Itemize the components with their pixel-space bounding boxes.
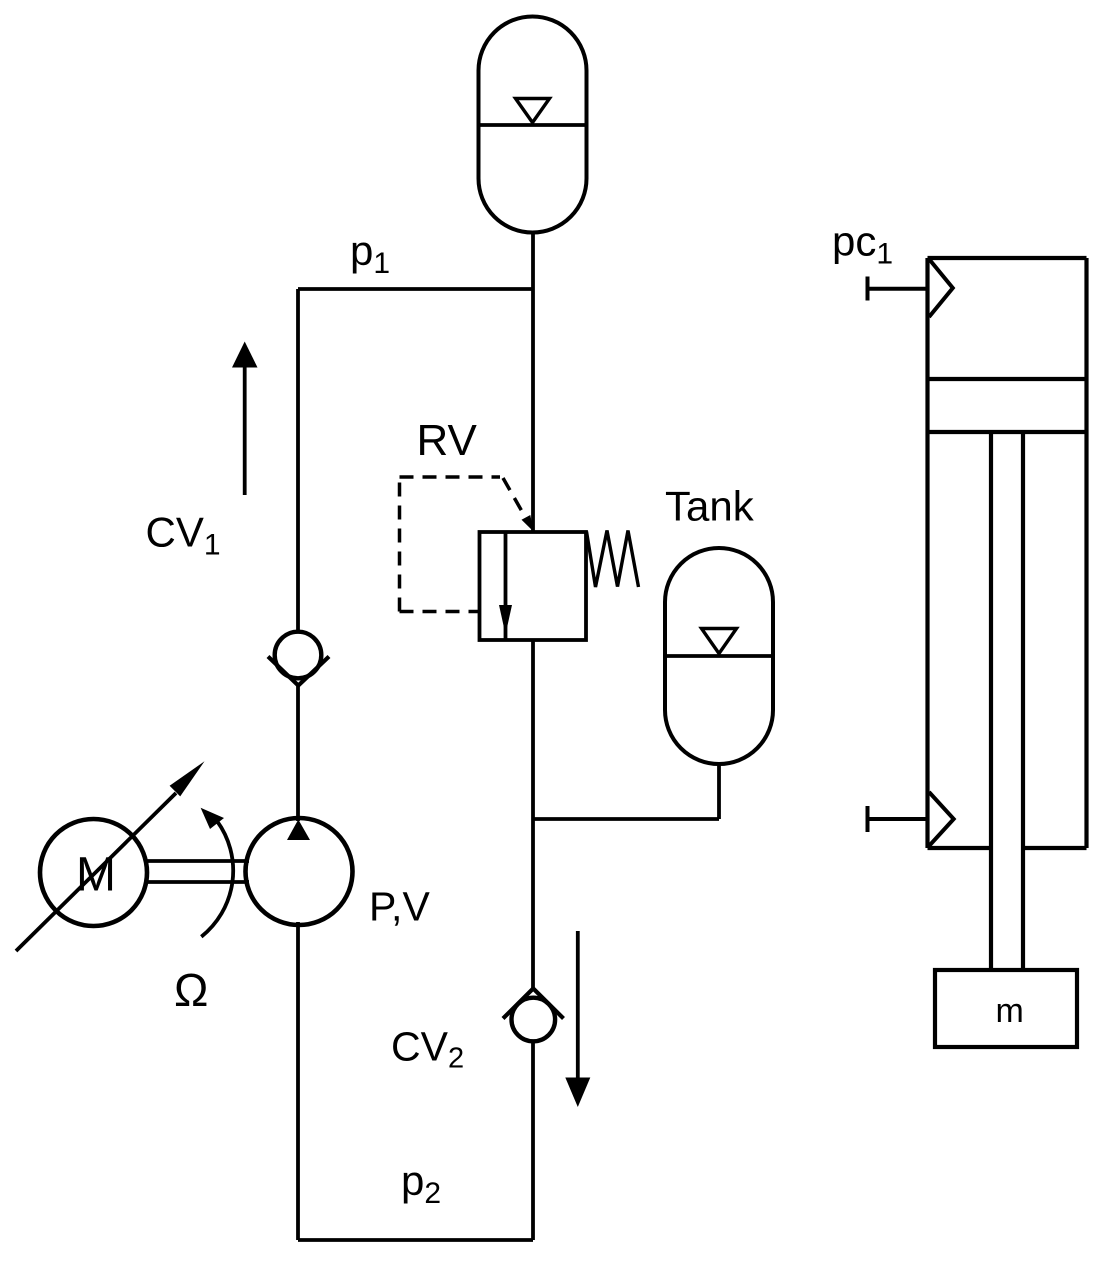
- wire accumulator stem to RV: [531, 232, 535, 532]
- motor M circle: [40, 819, 147, 926]
- pump P flow triangle: [287, 820, 310, 841]
- check valve CV2 seat: [503, 989, 564, 1019]
- cylinder top port line: [868, 287, 928, 291]
- accumulator ACC1 gas/fluid separator line: [479, 123, 587, 127]
- svg-text:CV1: CV1: [146, 509, 221, 562]
- cylinder top edge: [928, 256, 1087, 260]
- flow arrow up: [232, 342, 258, 496]
- wire tank stem: [717, 764, 721, 819]
- relief valve RV internal arrowhead: [499, 605, 512, 635]
- cylinder left wall: [925, 258, 929, 848]
- shaft upper line: [146, 859, 249, 863]
- pilot arrowhead: [522, 515, 534, 532]
- pilot dashed line top: [400, 475, 501, 479]
- wire tank junction horizontal: [533, 817, 719, 821]
- piston lower face: [928, 430, 1087, 434]
- svg-text:pc1: pc1: [832, 218, 893, 271]
- piston upper face: [928, 377, 1087, 381]
- pilot dashed line vertical: [398, 477, 402, 612]
- cylinder bottom port chevron: [929, 792, 954, 846]
- wire center below RV: [531, 640, 535, 988]
- wire p1 horizontal: [298, 287, 533, 291]
- piston rod right: [1021, 432, 1025, 970]
- accumulator Tank separator line: [665, 654, 773, 658]
- check valve CV1 circle: [275, 632, 322, 679]
- mass block m: [935, 970, 1077, 1047]
- pilot dashed diagonal: [503, 478, 528, 522]
- wire left branch upper: [296, 289, 300, 633]
- flow arrow down: [565, 931, 590, 1107]
- pump P circle: [246, 818, 353, 925]
- wire center below CV2: [531, 1041, 535, 1240]
- cylinder bottom port tick: [866, 806, 870, 832]
- wire bottom horizontal: [298, 1238, 533, 1242]
- svg-text:P,V: P,V: [369, 884, 430, 930]
- relief valve RV spring: [587, 531, 639, 588]
- svg-text:p2: p2: [401, 1157, 441, 1210]
- check valve CV1 seat: [268, 657, 329, 686]
- accumulator ACC1 body: [479, 17, 587, 233]
- wire left branch below pump: [296, 922, 300, 1240]
- svg-text:m: m: [996, 992, 1024, 1030]
- cylinder top port chevron: [929, 259, 953, 317]
- variable displacement arrow: [16, 761, 205, 951]
- cylinder bottom edge right: [1023, 846, 1087, 850]
- rotation arc omega: [201, 808, 234, 937]
- relief valve RV body: [480, 532, 587, 640]
- shaft lower line: [146, 880, 249, 884]
- cylinder bottom port line: [868, 817, 928, 821]
- cylinder top port tick: [866, 277, 870, 301]
- svg-text:RV: RV: [417, 416, 478, 465]
- accumulator ACC1 gas triangle: [516, 99, 550, 123]
- svg-text:CV2: CV2: [391, 1024, 464, 1075]
- piston rod left: [989, 432, 993, 970]
- pilot dashed line bottom: [400, 610, 480, 614]
- relief valve RV internal flow line: [504, 532, 508, 640]
- accumulator Tank body: [665, 548, 773, 764]
- cylinder bottom edge left: [928, 846, 992, 850]
- svg-text:p1: p1: [350, 227, 390, 280]
- accumulator Tank gas triangle: [702, 629, 737, 654]
- svg-text:Ω: Ω: [174, 964, 208, 1016]
- check valve CV2 circle: [512, 998, 556, 1042]
- svg-text:Tank: Tank: [665, 483, 755, 530]
- cylinder right wall: [1084, 258, 1088, 848]
- wire left branch below CV1: [296, 685, 300, 821]
